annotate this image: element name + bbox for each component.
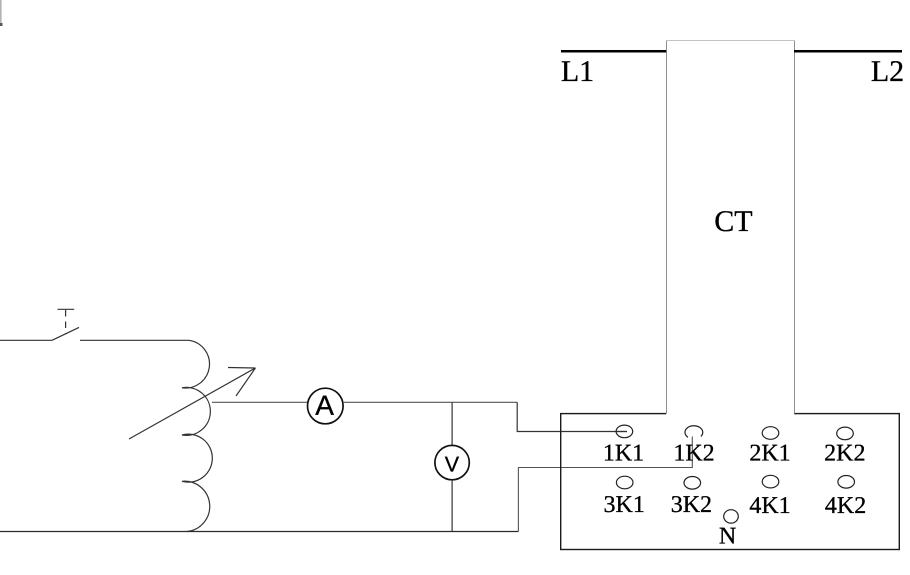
terminal 2K1	[762, 427, 779, 440]
wire: L-shape up/right to terminal 1K2	[518, 437, 692, 532]
svg-text:CT: CT	[714, 205, 752, 238]
svg-text:1K2: 1K2	[673, 441, 714, 467]
svg-text:A: A	[315, 390, 334, 421]
terminal box	[561, 414, 900, 550]
current transformer CT body	[666, 41, 795, 417]
svg-text:2K2: 2K2	[824, 440, 865, 466]
terminal 1K1	[616, 425, 633, 438]
svg-text:N: N	[719, 524, 736, 550]
line L2 feeder wire	[794, 50, 902, 53]
terminal 2K2	[837, 427, 854, 440]
wire: voltmeter branch upper	[451, 402, 453, 446]
wire: bottom return lead	[0, 531, 518, 533]
svg-text:1K1: 1K1	[603, 441, 644, 467]
variac wiper arrow	[129, 368, 255, 440]
wire: voltmeter branch lower	[451, 480, 453, 532]
wire: AC source top lead	[0, 339, 52, 341]
terminal 4K1	[762, 475, 779, 488]
svg-text:2K1: 2K1	[749, 440, 790, 466]
svg-text:4K1: 4K1	[749, 493, 790, 519]
terminal 3K2	[684, 477, 701, 490]
wire: variac tap to ammeter	[212, 401, 308, 403]
terminal 1K2 (open bottom)	[685, 426, 703, 438]
wire: switch to variac	[80, 339, 189, 341]
svg-text:L1: L1	[561, 55, 594, 88]
switch S blade	[52, 327, 79, 340]
wire: L-shape down/right to terminal 1K1	[517, 402, 627, 431]
svg-text:4K2: 4K2	[825, 493, 866, 519]
scan streak top-left (decorative)	[0, 0, 3, 26]
svg-text:3K1: 3K1	[604, 492, 645, 518]
terminal 4K2	[838, 476, 855, 489]
wire tail inside terminal 1K1	[617, 431, 627, 433]
terminal 3K1	[616, 476, 633, 489]
variac winding T1	[182, 340, 212, 531]
ammeter A	[308, 388, 344, 424]
voltmeter V	[435, 445, 469, 479]
svg-text:L2: L2	[871, 55, 904, 88]
wire: ammeter to corner, with voltmeter junction	[343, 401, 517, 403]
switch actuator T-bar with dashed link	[58, 309, 75, 334]
svg-text:3K2: 3K2	[671, 492, 712, 518]
line L1 feeder wire	[561, 50, 666, 53]
svg-text:V: V	[445, 452, 460, 476]
terminal N	[724, 510, 739, 523]
